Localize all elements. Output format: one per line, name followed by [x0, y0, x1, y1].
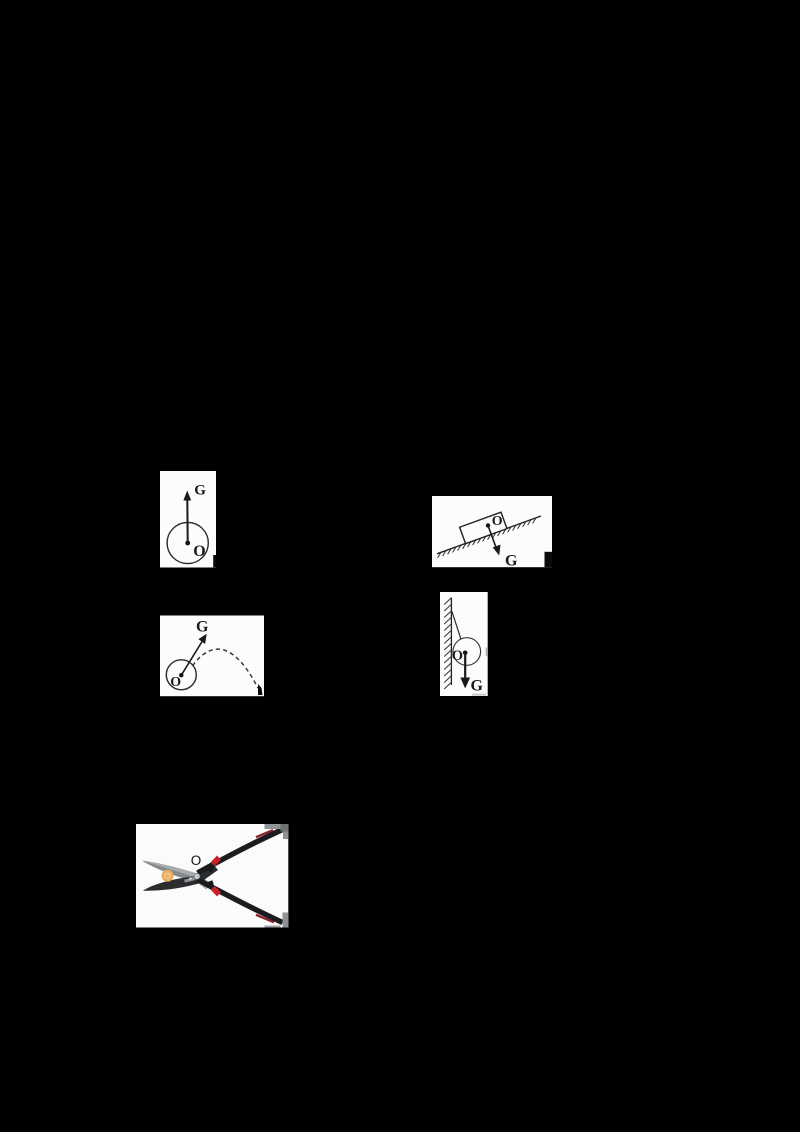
figure E panel (hedge shears photo)	[136, 824, 288, 928]
incline surface line	[437, 516, 541, 554]
orange marker dot	[162, 870, 174, 882]
G arrowhead (projectile)	[198, 634, 206, 644]
lower dark blade (runs tip lower-left through pivot to upper-right)	[143, 865, 218, 891]
upper silver blade (runs tip upper-left through pivot to lower-right)	[142, 861, 212, 890]
gray artifact top right 2	[281, 824, 289, 832]
upper hook	[209, 867, 214, 873]
svg-text:G: G	[196, 619, 209, 636]
svg-text:O: O	[191, 853, 202, 868]
block on incline	[460, 512, 507, 543]
lower hook	[208, 880, 214, 886]
upper handle tip dark red	[256, 830, 273, 837]
ball	[166, 660, 196, 690]
gray strip bottom (wall panel)	[472, 694, 486, 696]
upper blade darker lower bevel	[142, 861, 196, 882]
gray artifact bottom strip	[265, 926, 281, 928]
svg-text:G: G	[194, 483, 206, 499]
svg-text:O: O	[193, 543, 205, 560]
gray artifact bottom right 1	[283, 913, 289, 928]
dashed trajectory	[193, 649, 258, 688]
text fragment right edge of panel A	[213, 555, 216, 567]
lower blade light streak near pivot	[184, 876, 196, 882]
figure B panel (block on incline)	[432, 496, 552, 567]
svg-text:G: G	[505, 553, 518, 570]
pivot bolt	[194, 873, 200, 879]
G arrowhead (block)	[493, 545, 501, 556]
lower handle tip dark red	[256, 915, 274, 923]
ball (wall)	[453, 638, 481, 666]
center dot	[179, 673, 183, 677]
G arrow shaft (wall)	[464, 653, 466, 679]
G arrowhead	[183, 491, 191, 501]
center dot	[185, 541, 190, 546]
svg-text:G: G	[471, 678, 484, 695]
upper handle red band	[213, 858, 219, 865]
string	[452, 612, 465, 653]
trajectory end fragment	[258, 684, 263, 695]
svg-text:O: O	[492, 514, 503, 529]
center dot (wall)	[463, 651, 468, 656]
gray artifact top right 1	[265, 824, 281, 829]
incline hatching	[438, 518, 536, 558]
G arrowhead (wall)	[460, 678, 470, 689]
figure C panel (projectile ball)	[160, 616, 264, 697]
ball O	[167, 522, 208, 563]
lower handle	[198, 880, 283, 923]
text fragment bottom right panel B	[545, 552, 553, 567]
figure A panel (ball with upward G)	[160, 471, 216, 568]
G arrow shaft (projectile)	[181, 640, 203, 675]
upper handle	[198, 830, 283, 874]
svg-text:O: O	[452, 648, 463, 664]
gray artifact top right 3	[283, 832, 288, 840]
lower handle red band	[213, 888, 219, 895]
G arrow shaft (block)	[488, 526, 497, 550]
G arrow shaft	[186, 499, 188, 543]
gray fragment right edge (wall panel)	[486, 648, 488, 657]
svg-text:O: O	[170, 675, 181, 690]
figure D panel (ball on string against wall)	[440, 592, 488, 696]
wall hatching	[444, 598, 451, 689]
wall line	[450, 598, 452, 686]
block center dot	[486, 523, 490, 527]
blade highlight left of bolt	[189, 877, 192, 880]
